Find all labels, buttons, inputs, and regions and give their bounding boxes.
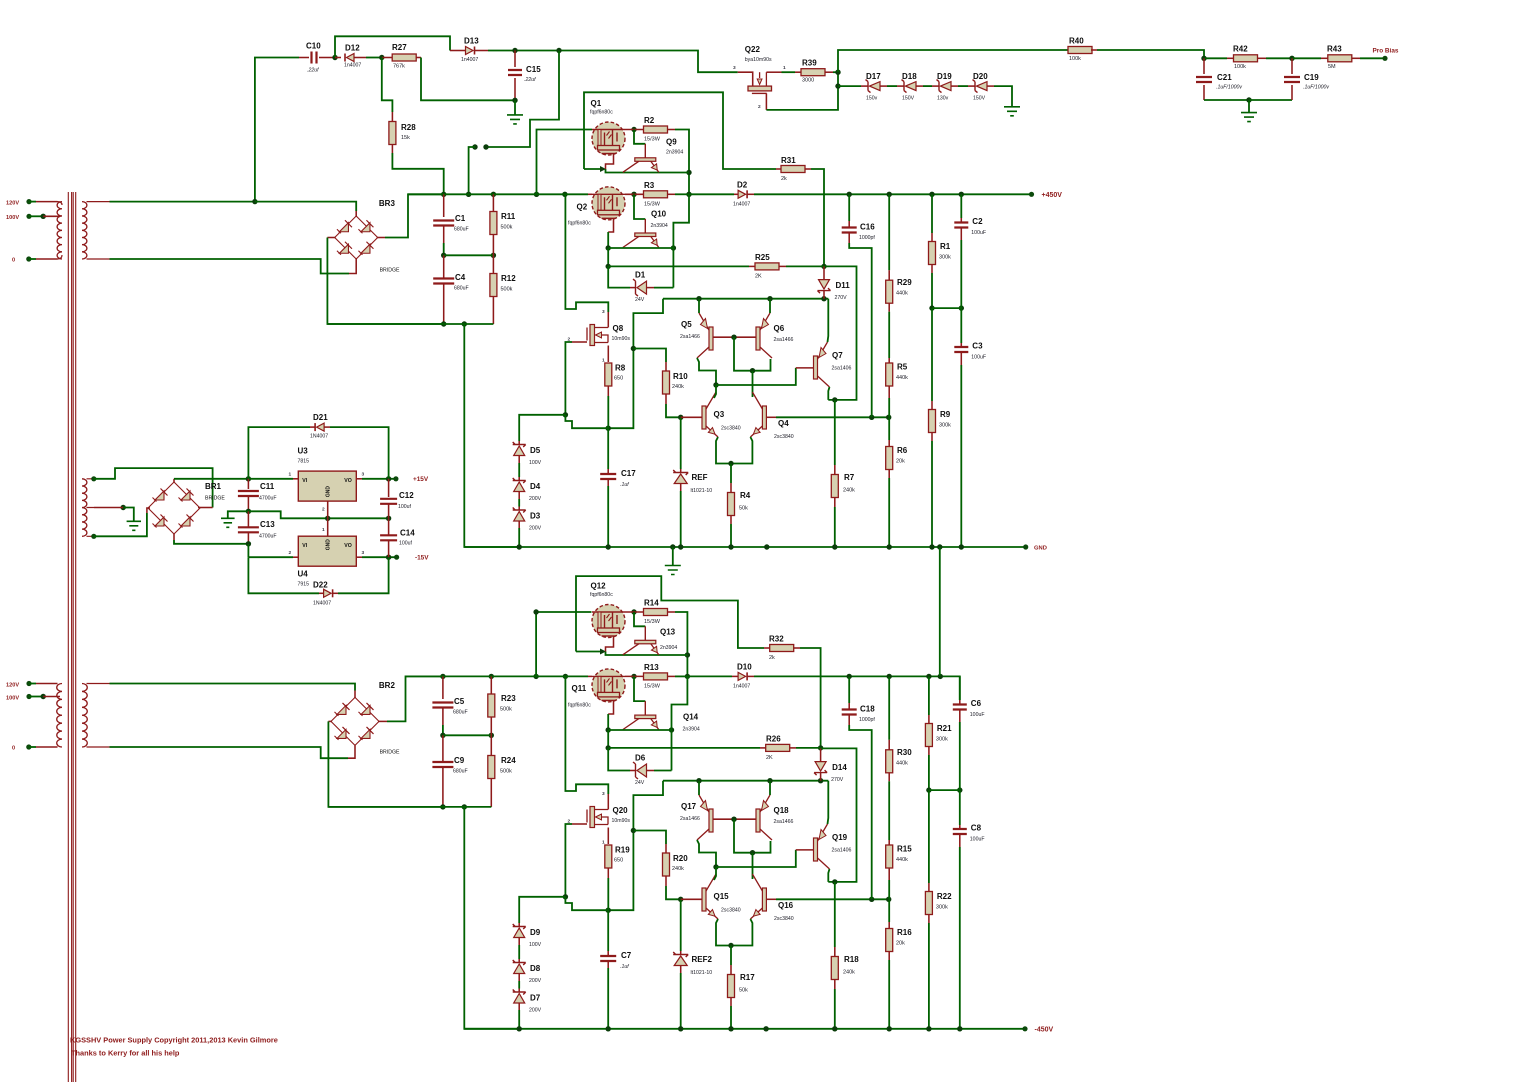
wire R7 bottom lead bottom bbox=[834, 980, 836, 990]
wire R25 row left bbox=[608, 265, 749, 267]
junction bbox=[533, 674, 538, 679]
svg-text:2k: 2k bbox=[769, 655, 775, 661]
wire 120V stub bottom bbox=[29, 683, 36, 685]
svg-text:120V: 120V bbox=[6, 200, 19, 206]
power MOSFET Q2 bbox=[592, 187, 625, 220]
svg-text:440k: 440k bbox=[896, 291, 908, 297]
junction bbox=[441, 253, 446, 258]
svg-text:R4: R4 bbox=[740, 491, 751, 500]
wire R5 bottom lead bottom bbox=[888, 868, 890, 880]
svg-text:440k: 440k bbox=[896, 375, 908, 381]
wire mid to R9 top bbox=[931, 308, 933, 401]
wire D3 top lead top bbox=[518, 507, 520, 511]
wire Q7 base lead top bbox=[796, 367, 814, 369]
svg-text:270V: 270V bbox=[831, 777, 844, 783]
wire R10 top lead bottom bbox=[665, 844, 667, 853]
wire Dz top lead top bbox=[823, 266, 825, 279]
wire divider mid top bbox=[932, 307, 961, 309]
junction bbox=[556, 48, 561, 53]
svg-text:680uF: 680uF bbox=[453, 710, 468, 716]
svg-text:R11: R11 bbox=[501, 212, 516, 221]
junction bbox=[728, 461, 733, 466]
wire U3 VO lead bbox=[356, 478, 362, 480]
wire Q22 drain lead bbox=[766, 71, 781, 73]
svg-text:50k: 50k bbox=[739, 988, 748, 994]
svg-text:300k: 300k bbox=[939, 423, 951, 429]
junction bbox=[534, 192, 539, 197]
junction bbox=[440, 804, 445, 809]
wire node up to R40 line bbox=[838, 50, 1068, 72]
wire Q5 collector link bottom bbox=[697, 840, 716, 867]
wire C10 left stub bbox=[299, 57, 309, 59]
wire fet source lead bottom bbox=[607, 828, 609, 845]
wire C21 to gnd node bbox=[1204, 99, 1249, 101]
resistor R28 bbox=[389, 122, 396, 145]
svg-text:D3: D3 bbox=[530, 512, 541, 521]
svg-text:650: 650 bbox=[614, 376, 623, 382]
wire C1 to mid bbox=[443, 243, 445, 255]
wire C16 top bottom bbox=[848, 676, 850, 703]
junction bbox=[887, 674, 892, 679]
svg-text:R27: R27 bbox=[392, 43, 407, 52]
wire D4-D3 bottom bbox=[518, 981, 520, 989]
svg-text:500k: 500k bbox=[500, 707, 512, 713]
wire R1 top lead top bbox=[931, 233, 933, 242]
svg-text:R21: R21 bbox=[937, 724, 952, 733]
junction bbox=[926, 674, 931, 679]
node TR2 sec bottom bbox=[91, 534, 96, 539]
svg-text:3: 3 bbox=[362, 472, 365, 478]
wire node to D17 bbox=[838, 85, 861, 87]
winding TR1 primary bbox=[57, 202, 62, 259]
wire Q3 base lead bottom bbox=[681, 898, 702, 900]
junction bbox=[1289, 56, 1294, 61]
wire feedback row top bbox=[776, 416, 889, 418]
svg-text:440k: 440k bbox=[896, 760, 908, 766]
svg-text:BRIDGE: BRIDGE bbox=[205, 496, 225, 502]
wire C16 top lead bottom bbox=[848, 703, 850, 710]
wire Q3 emitter riser bottom bbox=[716, 919, 731, 946]
wire Q22 gate lead bbox=[738, 72, 753, 86]
wire -450V rail bbox=[464, 1028, 1025, 1030]
svg-text:15k: 15k bbox=[401, 135, 410, 141]
svg-text:1: 1 bbox=[289, 472, 292, 478]
wire fet source lead top bbox=[607, 346, 609, 363]
wire R9 bottom lead top bbox=[931, 433, 933, 442]
wire node to R43 bbox=[1292, 57, 1321, 59]
svg-text:2sa1466: 2sa1466 bbox=[774, 337, 794, 343]
wire TR3 sec top to BR2 bbox=[110, 684, 356, 691]
wire R8 bottom lead top bbox=[607, 386, 609, 396]
svg-text:5M: 5M bbox=[1328, 64, 1336, 70]
wire R29 bottom lead top bbox=[888, 303, 890, 312]
svg-text:15/3W: 15/3W bbox=[644, 202, 661, 208]
wire R4 to rail top bbox=[730, 524, 732, 547]
junction bbox=[728, 544, 733, 549]
terminal -15V bbox=[394, 555, 399, 560]
wire TR1 sec top to BR3 bbox=[110, 201, 255, 203]
resistor R1 bbox=[929, 242, 936, 265]
svg-text:R23: R23 bbox=[501, 694, 516, 703]
wire Q3-Q7 row bottom bbox=[716, 850, 796, 867]
wire Q6 emitter riser bottom bbox=[769, 781, 771, 795]
wire D6 right lead bbox=[647, 770, 655, 772]
zener D9 bbox=[513, 924, 526, 938]
svg-text:D22: D22 bbox=[313, 581, 328, 590]
resistor R21 bbox=[925, 724, 932, 747]
wire R7 bottom lead top bbox=[834, 498, 836, 508]
svg-text:2sa1406: 2sa1406 bbox=[832, 848, 852, 854]
junction bbox=[887, 1026, 892, 1031]
svg-text:R14: R14 bbox=[644, 599, 659, 608]
node Q1 source arrow bbox=[600, 166, 606, 172]
diode D12 bbox=[345, 54, 354, 62]
wire R5 to tap top bbox=[888, 398, 890, 417]
svg-text:100V: 100V bbox=[529, 942, 542, 948]
wire C5 to mid bbox=[442, 725, 444, 735]
wire C3 bottom lead top bbox=[960, 352, 962, 365]
wire Q2 drain lead bbox=[565, 193, 588, 195]
svg-text:R5: R5 bbox=[897, 363, 908, 372]
wire R1 to mid top bbox=[931, 273, 933, 308]
wire Q11 source link bbox=[607, 714, 609, 730]
junction bbox=[887, 192, 892, 197]
wire fet drain lead bottom bbox=[607, 794, 609, 810]
wire output jog bottom bbox=[672, 676, 688, 730]
svg-text:Q15: Q15 bbox=[714, 892, 730, 901]
svg-text:R28: R28 bbox=[401, 123, 416, 132]
wire R9 to rail bottom bbox=[928, 923, 930, 1029]
wire R10 to base node top bbox=[666, 404, 681, 417]
terminal 0 top bbox=[26, 256, 31, 261]
wire C3 top lead bottom bbox=[959, 825, 961, 829]
wire Q3 emitter riser top bbox=[716, 437, 731, 464]
junction bbox=[606, 264, 611, 269]
wire R4 top link top bbox=[730, 464, 732, 484]
wire base to mirror link bottom bbox=[734, 819, 771, 853]
junction bbox=[1246, 97, 1251, 102]
svg-text:R6: R6 bbox=[897, 446, 908, 455]
svg-text:150V: 150V bbox=[973, 96, 986, 102]
wire R5 bottom lead top bbox=[888, 386, 890, 398]
wire R29-R5 bottom bbox=[888, 781, 890, 840]
svg-text:1N4007: 1N4007 bbox=[313, 601, 331, 607]
svg-text:240k: 240k bbox=[843, 488, 855, 494]
zener D19 bbox=[937, 80, 952, 93]
wire R7 top lead bottom bbox=[834, 947, 836, 957]
resistor R43 bbox=[1328, 55, 1352, 62]
wire D22 loop b bbox=[338, 557, 389, 593]
svg-text:20k: 20k bbox=[896, 459, 905, 465]
wire D21 loop b bbox=[330, 427, 389, 479]
wire Q1 to R2 bbox=[625, 129, 644, 131]
wire R39 left lead bbox=[795, 71, 801, 73]
svg-text:R18: R18 bbox=[844, 955, 859, 964]
junction bbox=[669, 727, 674, 732]
wire Q3-Q7 row top bbox=[716, 368, 796, 385]
wire C21 bottom lead bbox=[1203, 85, 1205, 100]
junction bbox=[728, 943, 733, 948]
transistor Q14 bbox=[623, 701, 659, 730]
junction bbox=[440, 733, 445, 738]
wire C11 rail to U3 bbox=[248, 478, 293, 480]
small MOSFET Q20 bbox=[587, 807, 608, 828]
wire C10 left lead to AC line bbox=[255, 58, 299, 202]
capacitor C4 bbox=[433, 279, 454, 284]
junction bbox=[246, 541, 251, 546]
wire amp top rail bottom bbox=[663, 780, 828, 782]
svg-text:BRIDGE: BRIDGE bbox=[380, 750, 400, 756]
junction bbox=[821, 296, 826, 301]
junction bbox=[441, 192, 446, 197]
junction bbox=[835, 83, 840, 88]
transistor Q6 bbox=[756, 313, 772, 358]
wire R26 right lead bbox=[790, 747, 796, 749]
wire amp top rail top bbox=[663, 298, 828, 300]
wire D1 left lead bbox=[630, 287, 636, 289]
ground on GND rail bbox=[665, 566, 681, 575]
capacitor C9 bbox=[432, 762, 453, 767]
wire C1 bottom lead bbox=[443, 226, 445, 243]
junction bbox=[767, 296, 772, 301]
zener D17 bbox=[866, 80, 881, 93]
wire R4 bottom lead bottom bbox=[730, 998, 732, 1007]
wire U4 GND pin bbox=[327, 518, 329, 536]
resistor R39 bbox=[801, 69, 825, 76]
wire 100V tap lead bottom bbox=[43, 696, 60, 698]
wire R27 right lead bbox=[417, 57, 422, 59]
transistor Q5 bbox=[697, 313, 713, 358]
wire R12 top lead bbox=[492, 255, 494, 273]
svg-text:1000pf: 1000pf bbox=[859, 717, 875, 723]
svg-text:2n3904: 2n3904 bbox=[666, 150, 683, 156]
junction bbox=[869, 415, 874, 420]
svg-text:4700uF: 4700uF bbox=[259, 534, 277, 540]
svg-text:C16: C16 bbox=[860, 223, 875, 232]
wire D19 right lead bbox=[951, 85, 958, 87]
transistor Q19 bbox=[814, 824, 830, 869]
junction bbox=[631, 346, 636, 351]
wire gnd stub left bbox=[228, 511, 249, 518]
junction bbox=[332, 55, 337, 60]
junction bbox=[386, 476, 391, 481]
capacitor C11 bbox=[238, 491, 259, 496]
junction bbox=[929, 305, 934, 310]
junction bbox=[489, 733, 494, 738]
svg-text:.22uf: .22uf bbox=[307, 68, 319, 74]
junction bbox=[246, 476, 251, 481]
bridge rectifier BR3 bbox=[335, 216, 378, 259]
wire R10 to base node bottom bbox=[666, 886, 681, 899]
wire R43 to Pro Bias bbox=[1360, 57, 1385, 59]
capacitor C21 bbox=[1196, 77, 1212, 82]
wire mid to C3 top bbox=[960, 308, 962, 343]
wire R3 to output col bbox=[675, 193, 689, 195]
svg-text:GND: GND bbox=[325, 539, 331, 551]
junction bbox=[631, 609, 636, 614]
resistor R42 bbox=[1234, 55, 1258, 62]
svg-text:Q9: Q9 bbox=[666, 138, 677, 147]
junction bbox=[678, 415, 683, 420]
wire Q5 collector link top bbox=[697, 358, 716, 385]
svg-text:R8: R8 bbox=[615, 364, 626, 373]
svg-text:Q17: Q17 bbox=[681, 802, 697, 811]
svg-text:Q6: Q6 bbox=[774, 324, 785, 333]
resistor R29 bbox=[886, 280, 893, 303]
svg-text:.1uf: .1uf bbox=[620, 482, 629, 488]
wire 120V lead top bbox=[36, 201, 58, 203]
junction bbox=[832, 879, 837, 884]
wire 0 lead top bbox=[36, 258, 58, 260]
wire D5-D4 top bbox=[518, 463, 520, 477]
wire Q11 source pin bbox=[608, 701, 613, 714]
junction bbox=[886, 415, 891, 420]
TR3 secondary leads bbox=[87, 684, 110, 748]
svg-text:1n4007: 1n4007 bbox=[461, 57, 478, 63]
junction bbox=[685, 674, 690, 679]
wire U4 VO lead bbox=[356, 556, 362, 558]
junction bbox=[491, 192, 496, 197]
wire R4 top link bottom bbox=[730, 946, 732, 966]
wire R42 right lead bbox=[1258, 57, 1267, 59]
resistor R20 bbox=[663, 853, 670, 876]
svg-text:R17: R17 bbox=[740, 973, 755, 982]
diode D2 bbox=[738, 190, 747, 198]
svg-text:.1uF/1000v: .1uF/1000v bbox=[1216, 85, 1242, 91]
wire +raw rail bottom bbox=[406, 675, 566, 677]
wire R8 to C17 node top bbox=[607, 396, 609, 428]
capacitor C5 bbox=[432, 703, 453, 708]
svg-text:BRIDGE: BRIDGE bbox=[380, 268, 400, 274]
junction bbox=[937, 544, 942, 549]
wire Q4 collector riser top bbox=[752, 371, 754, 397]
junction bbox=[750, 850, 755, 855]
wire C3 to rail bottom bbox=[959, 847, 961, 1029]
svg-text:100uF: 100uF bbox=[971, 355, 986, 361]
wire zener chain top top bbox=[519, 415, 565, 441]
wire Q3 collector riser top bbox=[714, 385, 716, 398]
wire C13 bottom lead bbox=[247, 532, 249, 544]
wire D3 top lead bottom bbox=[518, 989, 520, 993]
svg-text:100uF: 100uF bbox=[970, 712, 985, 718]
svg-text:C6: C6 bbox=[971, 699, 982, 708]
wire BR1 bottom pin bbox=[173, 534, 175, 540]
svg-text:C12: C12 bbox=[399, 491, 414, 500]
svg-text:3: 3 bbox=[602, 791, 605, 797]
svg-text:Q3: Q3 bbox=[714, 410, 725, 419]
svg-text:2K: 2K bbox=[766, 755, 773, 761]
wire D6 to riser bbox=[654, 770, 672, 772]
wire Q22 source to R39 node bbox=[766, 72, 838, 110]
svg-text:Q16: Q16 bbox=[778, 901, 794, 910]
svg-text:24V: 24V bbox=[635, 780, 645, 786]
svg-text:Q19: Q19 bbox=[832, 833, 848, 842]
svg-text:VO: VO bbox=[344, 543, 352, 549]
svg-text:200V: 200V bbox=[529, 496, 542, 502]
svg-text:D8: D8 bbox=[530, 964, 541, 973]
svg-text:20k: 20k bbox=[896, 941, 905, 947]
svg-text:100uF: 100uF bbox=[971, 230, 986, 236]
wire R10 link top bbox=[633, 349, 666, 363]
capacitor C19 bbox=[1284, 77, 1300, 82]
svg-text:fqpf6n80c: fqpf6n80c bbox=[590, 592, 613, 598]
wire GND rail bbox=[464, 546, 1025, 548]
junction bbox=[929, 544, 934, 549]
wire Q2 to R3 bbox=[625, 193, 644, 195]
junction bbox=[41, 694, 46, 699]
wire C17 top top bbox=[607, 428, 609, 469]
svg-text:Q14: Q14 bbox=[683, 713, 699, 722]
wire BR3 right pin bbox=[377, 237, 385, 239]
wire D5 top lead top bbox=[518, 441, 520, 445]
wire C2 top top bbox=[960, 194, 962, 218]
svg-text:1n4007: 1n4007 bbox=[344, 63, 361, 69]
wire R25 row right bbox=[786, 265, 824, 267]
svg-text:3: 3 bbox=[362, 550, 365, 556]
capacitor C3 bbox=[954, 347, 968, 352]
junction bbox=[929, 192, 934, 197]
svg-text:7815: 7815 bbox=[298, 459, 310, 465]
wire R26 row right bbox=[796, 747, 821, 749]
wire D12 left lead bbox=[335, 57, 341, 59]
wire D17 left lead bbox=[861, 85, 868, 87]
svg-text:500k: 500k bbox=[500, 769, 512, 775]
svg-text:2k: 2k bbox=[781, 176, 787, 182]
wire D21 right lead bbox=[324, 426, 330, 428]
wire R9 bottom lead bottom bbox=[928, 915, 930, 924]
wire D18-D19 bbox=[923, 85, 932, 87]
wire U3 GND pin bbox=[327, 501, 329, 518]
wire BR1 pos to C11 rail bbox=[174, 478, 248, 480]
zener REF2 bbox=[673, 952, 688, 966]
wire D22 left lead bbox=[319, 592, 324, 594]
wire select to rail bbox=[469, 147, 475, 194]
junction bbox=[886, 897, 891, 902]
terminal GND bbox=[1023, 544, 1028, 549]
wire D10 left lead bbox=[732, 675, 738, 677]
wire bottom rail bottom bank bbox=[328, 806, 491, 808]
wire 0 stub bottom bbox=[29, 746, 36, 748]
wire R31 left lead bbox=[776, 168, 781, 170]
svg-text:Q1: Q1 bbox=[591, 99, 602, 108]
wire R28 branch bbox=[382, 58, 393, 113]
wire REF to rail bottom bbox=[680, 973, 682, 1029]
wire BR1 neg to C13 rail bbox=[174, 540, 248, 544]
wire C3 bottom lead bottom bbox=[959, 834, 961, 847]
wire BR3 bottom pin bbox=[349, 258, 356, 274]
wire TR2 ct lead bbox=[94, 507, 123, 509]
junction bbox=[606, 1026, 611, 1031]
wire C2 to mid top bbox=[960, 240, 962, 308]
wire fet drain lead top bbox=[607, 312, 609, 328]
wire U3 to +15V bbox=[362, 478, 396, 480]
wire C17 bottom lead bottom bbox=[607, 961, 609, 968]
wire Q3 collector riser bottom bbox=[714, 867, 716, 880]
svg-text:270V: 270V bbox=[835, 295, 848, 301]
wire D13 left lead bbox=[450, 50, 466, 52]
wire Q4 collector riser bottom bbox=[752, 853, 754, 879]
svg-text:REF2: REF2 bbox=[692, 955, 713, 964]
wire Q1 source pin bbox=[606, 154, 614, 170]
svg-text:C5: C5 bbox=[454, 697, 465, 706]
wire -450V rail a bbox=[687, 675, 732, 677]
wire D19-D20 bbox=[958, 85, 968, 87]
wire C16 to feedback bottom bbox=[849, 725, 872, 899]
junction bbox=[606, 908, 611, 913]
svg-text:C4: C4 bbox=[455, 273, 466, 282]
svg-text:Q5: Q5 bbox=[681, 320, 692, 329]
wire R25 right lead bbox=[779, 265, 786, 267]
